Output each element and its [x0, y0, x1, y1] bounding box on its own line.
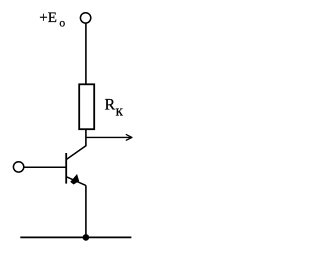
resistor Rk (collector resistor) [79, 84, 94, 129]
label Rk [105, 97, 124, 120]
wire: resistor Rk bottom to collector node [85, 129, 87, 146]
svg-text:R: R [105, 97, 116, 114]
wire: emitter to common rail [85, 185, 87, 237]
transistor Q1 (PNP) collector lead [66, 146, 86, 160]
output arrow (collector output) [86, 135, 132, 141]
input terminal (base input) [13, 162, 23, 172]
transistor Q1 emitter arrow (points toward base: PNP) [71, 175, 79, 184]
wire: input terminal to base [24, 166, 66, 168]
svg-text:+E: +E [39, 10, 57, 26]
svg-text:o: o [59, 18, 65, 30]
label +Eo (supply voltage) [39, 10, 65, 30]
svg-text:к: к [116, 104, 124, 120]
transistor Q1 base bar [65, 153, 67, 184]
common rail (ground bus) [20, 236, 131, 238]
terminal +Eo (top collector supply terminal) [80, 13, 90, 23]
junction: emitter wire to common rail [83, 234, 90, 241]
wire: supply terminal to resistor Rk top [85, 23, 87, 84]
transistor Q1 emitter lead [66, 177, 86, 186]
